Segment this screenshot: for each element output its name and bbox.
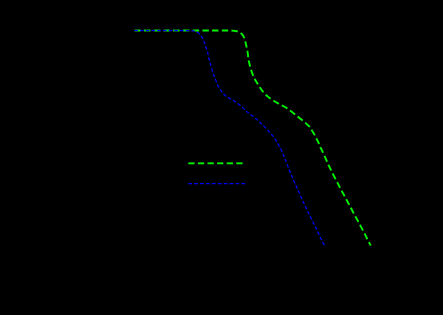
blue dashed curve (series 2) <box>134 31 324 246</box>
legend sample: green <box>188 162 242 164</box>
green dashed curve (series 1) <box>134 31 370 246</box>
legend sample: blue <box>188 183 245 185</box>
